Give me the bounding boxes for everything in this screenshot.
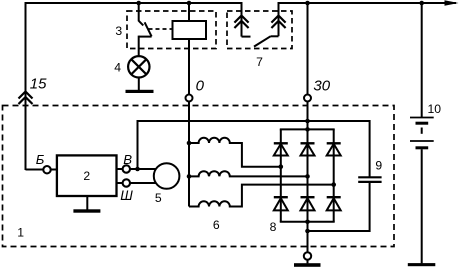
ignition switch 7 dashed box — [227, 11, 292, 49]
node junction dot (output 30 branch on bus) — [305, 1, 310, 6]
generator ground stem — [307, 260, 309, 264]
contact K3 foot — [139, 36, 152, 38]
wire bus to node 30 — [307, 3, 309, 95]
wire regulator B riser — [137, 121, 139, 169]
contact K3 lower lead — [138, 36, 140, 57]
svg-text:Ш: Ш — [120, 188, 133, 203]
node dot star point winding 2 — [187, 174, 192, 179]
diode VD5 (lower middle) — [301, 197, 315, 210]
svg-text:1: 1 — [17, 225, 24, 239]
diode VD4 (lower left) — [274, 197, 288, 210]
diode VD1 (upper left) — [274, 143, 288, 155]
wire relay coil to node 0 — [188, 39, 190, 95]
switch 7 right connector chevron lower — [271, 21, 285, 28]
capacitor 9 bottom lead — [369, 182, 371, 232]
node junction dot (relay branch on bus) — [187, 1, 192, 6]
node 30 terminal circle — [304, 95, 311, 102]
svg-text:8: 8 — [270, 220, 277, 234]
wire bus down to battery 10 — [421, 3, 423, 118]
svg-text:10: 10 — [428, 102, 442, 116]
stator phase winding 2 — [189, 171, 308, 176]
stator phase winding 3 — [189, 185, 334, 207]
wire top bus left segment — [25, 2, 242, 4]
generator chassis ground bar — [294, 263, 321, 267]
wire battery to ground — [421, 149, 423, 263]
connector 15 chevron upper — [19, 92, 33, 99]
wire Б stub to regulator — [51, 169, 57, 171]
node dot phase 1 to rectifier — [279, 164, 284, 169]
svg-text:В: В — [123, 152, 132, 167]
svg-text:0: 0 — [196, 78, 205, 95]
battery 10 cell 2 long plate — [410, 140, 434, 142]
wire node 0 to stator star point — [188, 101, 190, 206]
switch 7 right connector chevron upper — [271, 16, 285, 23]
contact K3 blade — [145, 22, 152, 36]
svg-text:4: 4 — [114, 60, 121, 74]
svg-text:5: 5 — [155, 191, 162, 205]
terminal Ш circle — [123, 179, 130, 186]
capacitor 9 top plate — [358, 176, 381, 178]
diode VD3 (upper right) — [327, 143, 341, 155]
node dot phase 2 to rectifier — [305, 174, 310, 179]
stator phase winding 1 — [189, 138, 281, 167]
capacitor 9 bottom plate — [358, 181, 381, 183]
generator 1 dashed box — [3, 106, 395, 247]
switch 7 left contact foot — [242, 36, 251, 38]
svg-text:Б: Б — [36, 152, 45, 167]
rectifier 8 right leg — [333, 129, 335, 221]
node dot rectifier top center — [305, 127, 310, 132]
rectifier 8 top rail — [280, 128, 335, 130]
wire capacitor return to rectifier minus — [308, 230, 370, 232]
wire drop into switch 7 right contact — [278, 2, 280, 36]
generator ground terminal circle — [304, 252, 311, 259]
contact K3 upper lead — [138, 3, 140, 21]
rotor 5 (field winding) circle — [154, 163, 180, 189]
wire node 30 down through rectifier to ground — [307, 101, 309, 252]
battery 10 inter-cell link — [421, 128, 423, 134]
switch 7 right contact foot — [271, 35, 279, 37]
wire positive rail — [137, 120, 370, 122]
svg-text:3: 3 — [115, 24, 122, 38]
switch 7 left connector chevron lower — [234, 21, 248, 28]
battery 10 cell 1 short plate — [416, 122, 429, 125]
svg-text:7: 7 — [256, 55, 263, 69]
node 0 terminal circle — [186, 95, 193, 102]
node junction dot (battery branch on bus) — [419, 1, 424, 6]
node dot phase 3 to rectifier — [331, 182, 336, 187]
battery 10 cell 1 long plate — [410, 117, 434, 119]
svg-text:9: 9 — [375, 159, 382, 173]
wire capacitor 9 top lead — [369, 120, 371, 177]
svg-text:30: 30 — [313, 78, 330, 95]
relay 3 dashed box — [127, 11, 216, 49]
node junction dot (lamp branch on bus) — [136, 1, 141, 6]
wire arrow at right end of bus — [445, 0, 459, 6]
regulator 2 chassis ground bar — [73, 209, 100, 212]
lamp 4 ground lead — [138, 78, 140, 91]
regulator 2 ground stem — [86, 196, 88, 210]
node dot rectifier bottom center — [305, 220, 310, 225]
relay 3 coil — [173, 21, 207, 39]
svg-text:15: 15 — [30, 75, 47, 92]
wire drop into switch 7 left contact — [241, 2, 243, 37]
lamp 4 circle — [128, 56, 149, 77]
contact K3 mechanical link (dashed) — [149, 28, 173, 30]
lamp 4 chassis ground bar — [126, 90, 154, 93]
node dot B riser — [135, 167, 140, 172]
diode VD6 (lower right) — [327, 197, 341, 210]
battery 10 cell 2 short plate — [416, 146, 429, 149]
regulator stub to terminal Ш — [116, 182, 122, 184]
terminal В circle — [123, 165, 130, 172]
connector 15 chevron lower — [19, 97, 33, 104]
diode VD2 (upper middle) — [301, 143, 315, 155]
switch 7 left connector chevron upper — [234, 16, 248, 23]
switch 7 blade (open) — [254, 36, 271, 46]
wire terminal Ш to rotor brush — [130, 182, 157, 184]
node dot rail/output — [305, 119, 310, 124]
wire terminal В to rotor brush — [130, 168, 157, 170]
lamp 4 cross — [131, 59, 146, 74]
terminal Б circle — [43, 166, 50, 173]
svg-text:6: 6 — [213, 218, 220, 232]
rectifier 8 bottom rail — [280, 221, 335, 223]
node dot capacitor return — [305, 229, 310, 234]
contact K3 fixed tick — [139, 21, 144, 26]
svg-text:2: 2 — [83, 169, 90, 183]
wire 15 line to terminal Б — [26, 169, 44, 171]
node dot star point winding 1 — [187, 141, 192, 146]
rectifier 8 left leg — [280, 129, 282, 221]
wire left vertical (to terminal 15/Б) — [25, 2, 27, 170]
voltage regulator 2 body — [57, 155, 117, 196]
regulator stub to terminal В — [116, 168, 122, 170]
battery chassis ground bar — [408, 263, 436, 266]
wire top bus right segment — [279, 2, 457, 4]
wire bus to relay coil — [188, 3, 190, 21]
